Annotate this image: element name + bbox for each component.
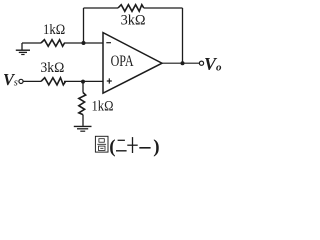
svg-text:): )	[153, 137, 159, 158]
svg-text:3kΩ: 3kΩ	[121, 12, 146, 28]
svg-text:1kΩ: 1kΩ	[92, 98, 114, 114]
svg-text:s: s	[14, 78, 18, 89]
svg-text:1kΩ: 1kΩ	[43, 22, 65, 38]
svg-text:3kΩ: 3kΩ	[40, 60, 64, 76]
svg-text:o: o	[216, 61, 222, 73]
svg-text:(: (	[109, 137, 115, 158]
svg-text:OPA: OPA	[111, 53, 134, 70]
